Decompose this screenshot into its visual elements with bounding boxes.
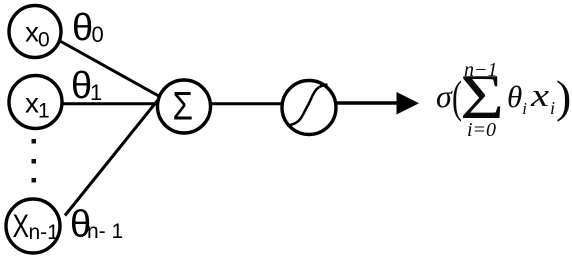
ellipsis dot 3 — [32, 178, 37, 183]
svg-text:1: 1 — [90, 80, 102, 105]
svg-text:0: 0 — [38, 29, 50, 52]
svg-text:): ) — [556, 71, 571, 122]
svg-text:i: i — [550, 98, 555, 118]
svg-text:θ: θ — [71, 65, 92, 107]
ellipsis dot 1 — [32, 139, 37, 144]
svg-text:n- 1: n- 1 — [87, 220, 123, 243]
activation node circle — [282, 81, 336, 135]
svg-text:x: x — [530, 78, 550, 114]
input node x0 circle — [9, 6, 61, 58]
wire sum to activation — [210, 102, 282, 105]
svg-text:X: X — [13, 208, 30, 244]
svg-text:Σ: Σ — [173, 85, 194, 129]
wire x1 to sum — [62, 102, 158, 105]
input node x1 circle — [9, 76, 62, 129]
ellipsis dot 2 — [32, 159, 37, 164]
svg-text:0: 0 — [92, 22, 104, 47]
svg-text:1: 1 — [38, 100, 50, 123]
svg-text:θi: θi — [507, 79, 527, 118]
sigmoid curve — [287, 85, 328, 126]
wire x0 to sum — [60, 41, 160, 97]
svg-text:θ: θ — [72, 7, 93, 49]
summation node circle — [158, 80, 211, 133]
svg-text:i=0: i=0 — [467, 119, 496, 141]
output arrow shaft — [336, 101, 399, 105]
svg-text:x: x — [25, 88, 39, 119]
output arrowhead — [397, 92, 420, 115]
input node xn-1 circle — [6, 199, 60, 253]
svg-text:x: x — [25, 17, 39, 48]
svg-text:n-1: n-1 — [29, 221, 59, 244]
output formula — [436, 59, 571, 141]
svg-text:n−1: n−1 — [464, 59, 498, 81]
wire xn-1 to sum — [65, 101, 158, 216]
svg-text:σ: σ — [436, 78, 453, 114]
